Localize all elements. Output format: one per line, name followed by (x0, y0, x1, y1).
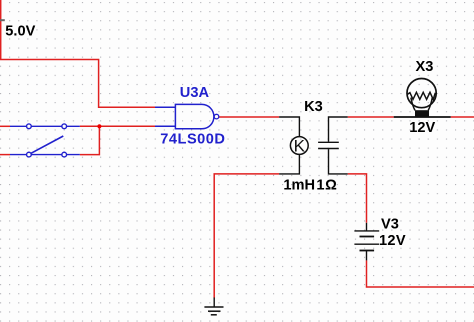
svg-text:1mH: 1mH (283, 177, 315, 193)
svg-text:12V: 12V (409, 120, 435, 136)
svg-text:12V: 12V (379, 233, 406, 249)
svg-text:X3: X3 (416, 59, 434, 75)
svg-text:K3: K3 (304, 99, 323, 115)
svg-text:U3A: U3A (180, 85, 210, 101)
svg-text:74LS00D: 74LS00D (160, 131, 225, 147)
svg-text:1Ω: 1Ω (316, 177, 337, 193)
svg-text:V3: V3 (381, 216, 399, 232)
svg-text:5.0V: 5.0V (5, 24, 35, 40)
svg-text:K: K (294, 136, 306, 155)
